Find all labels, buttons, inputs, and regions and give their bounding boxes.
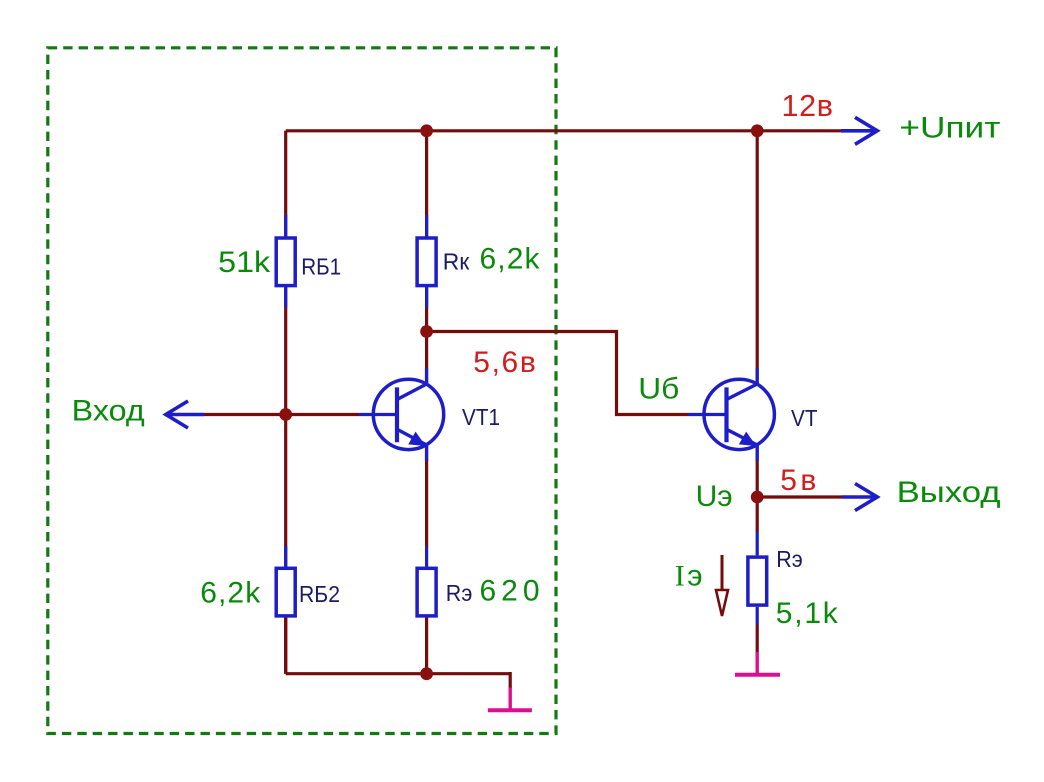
node: supply/VT collector junction [751,124,764,137]
wire: Rк column vertical [425,131,428,332]
resistor Rэ (VT1 emitter) [417,546,436,616]
wire: Rк/VT1 collector node to VT base [427,332,688,415]
dashed boundary box of amplifier stage [48,48,556,734]
wire: VT1 collector drop [425,332,428,369]
wire: VT emitter to output node [756,461,759,497]
svg-text:620: 620 [480,574,540,607]
wire: RБ2 and Rэ bottoms to bottom rail [286,617,427,674]
resistor Rк [417,215,436,308]
port arrow +Uпит [841,117,877,144]
ground symbol 2 (Rэ follower) [735,652,780,675]
svg-text:RБ1: RБ1 [301,253,341,279]
svg-text:+Uпит: +Uпит [899,112,1000,145]
wire: top supply rail [286,129,841,132]
wire: Rэ bottom to ground 2 [756,625,759,653]
svg-text:5,1k: 5,1k [776,597,839,630]
wire: ground 1 drop [509,672,512,688]
current arrow Iэ [716,555,728,616]
resistor Rэ (VT emitter follower) [748,532,767,625]
svg-text:6,2k: 6,2k [480,243,541,276]
svg-text:Rэ: Rэ [776,546,803,572]
svg-text:Uб: Uб [638,373,679,406]
svg-text:Rк: Rк [443,249,470,275]
transistor VT1 [359,368,444,461]
resistor RБ2 [276,546,295,616]
node: VT emitter output junction [751,491,764,504]
svg-text:Вход: Вход [72,395,145,428]
port arrow Вход [166,401,204,428]
wire: output node to arrow [757,495,842,498]
svg-text:VT: VT [791,405,818,431]
svg-text:Rэ: Rэ [446,580,473,606]
wire: bottom ground rail [286,672,511,675]
wire: left vertical branch (RБ1/RБ2 column) [284,131,287,674]
ground symbol 1 (bottom rail) [488,688,532,711]
transistor VT [688,368,774,461]
svg-text:51k: 51k [218,246,271,279]
node: supply/RБ1-Rк junction [420,124,433,137]
wire: input wire to VT1 base [204,413,359,416]
wire: output node down to Rэ [756,497,759,532]
wire: VT1 emitter to Rэ [425,461,428,547]
wire: VT collector from supply [756,131,759,368]
svg-text:VT1: VT1 [462,404,500,430]
node: Rк/VT1 collector junction [420,325,433,338]
port arrow Выход [842,484,877,511]
svg-text:RБ2: RБ2 [299,581,340,607]
svg-text:12в: 12в [782,89,834,123]
svg-text:6,2k: 6,2k [200,577,261,610]
resistor RБ1 [276,215,295,308]
svg-text:5,6в: 5,6в [473,346,536,379]
svg-text:Uэ: Uэ [696,480,733,513]
svg-text:Iэ: Iэ [675,560,703,593]
svg-text:Выход: Выход [897,476,1001,509]
node: bottom rail junction [420,667,433,680]
node: VT1 base / divider junction [279,408,292,421]
